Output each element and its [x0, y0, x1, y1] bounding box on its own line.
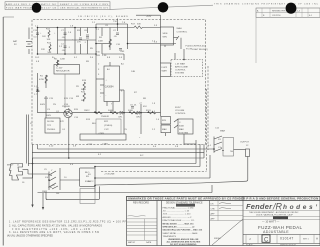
svg-text:SCALE —: SCALE — [246, 243, 255, 246]
svg-text:REV RECORD: REV RECORD [133, 202, 149, 205]
svg-text:DO NOT SCALE DRAWING: DO NOT SCALE DRAWING [170, 243, 197, 246]
svg-text:WAH: WAH [220, 130, 225, 133]
svg-text:CR2: CR2 [136, 117, 141, 119]
svg-text:2N REG: 2N REG [47, 129, 55, 131]
svg-text:FRACTIONAL ...................: FRACTIONAL ..................... ± 1/64 [163, 206, 195, 209]
svg-text:DIODE: DIODE [47, 121, 54, 123]
svg-text:OUTPUT: OUTPUT [240, 142, 250, 144]
svg-text:MAX: MAX [179, 128, 184, 131]
svg-text:.02R9: .02R9 [98, 133, 105, 135]
svg-text:300K: 300K [128, 110, 134, 112]
svg-text:CHK: CHK [211, 208, 216, 210]
svg-text:Fender: Fender [246, 202, 273, 211]
svg-text:.XX ..........................: .XX ................................ ± .… [163, 211, 190, 213]
svg-text:ALL DIMENSIONS ARE IN INCH: ALL DIMENSIONS ARE IN INCHES [167, 241, 201, 244]
svg-text:1. LAST REFERENCE DESIGNATOR: 1. LAST REFERENCE DESIGNATOR C15,CR2,S3,… [9, 221, 127, 224]
svg-text:470K: 470K [39, 79, 45, 81]
svg-text:CONTROL: CONTROL [175, 70, 186, 72]
svg-text:/R: /R [272, 202, 283, 212]
svg-text:LIGHT BULB(C): LIGHT BULB(C) [192, 49, 208, 51]
svg-text:SYSTEM: SYSTEM [175, 73, 184, 75]
svg-text:AIRVOLUME: AIRVOLUME [175, 66, 188, 69]
svg-text:A6C2: A6C2 [88, 180, 94, 183]
svg-text:VOLUME: VOLUME [175, 110, 185, 112]
svg-text:CONTROL(S): CONTROL(S) [191, 45, 205, 47]
svg-text:140K: 140K [98, 41, 104, 43]
svg-text:FUZZ: FUZZ [162, 67, 168, 69]
svg-text:SHEET METAL ................: SHEET METAL .......................... G… [163, 232, 199, 235]
svg-text:L.M. WAH: L.M. WAH [175, 63, 185, 66]
svg-text:MAX: MAX [162, 128, 167, 131]
svg-text:50K: 50K [137, 24, 141, 26]
svg-text:UNMARKED ANGLES WILL BE: UNMARKED ANGLES WILL BE [168, 238, 199, 241]
svg-text:FUZZ-WAH PEDAL: FUZZ-WAH PEDAL [258, 225, 302, 230]
svg-text:+VOLUME: +VOLUME [104, 174, 115, 176]
svg-text:WIN: WIN [163, 37, 168, 39]
svg-text:C/N 2250: C/N 2250 [272, 15, 281, 17]
svg-text:+10V: +10V [146, 16, 152, 18]
svg-text:FUZZ: FUZZ [175, 107, 181, 109]
svg-text:REGULATOR: REGULATOR [56, 70, 70, 73]
svg-text:1N4448: 1N4448 [101, 116, 109, 118]
svg-text:C5 .01: C5 .01 [130, 105, 137, 107]
svg-text:BLK: BLK [92, 123, 97, 125]
svg-text:WAH: WAH [177, 27, 182, 30]
svg-text:500K: 500K [179, 126, 185, 128]
svg-text:WAH: WAH [162, 70, 167, 73]
svg-text:BAT: BAT [13, 40, 18, 43]
svg-text:S1B: S1B [48, 187, 53, 189]
svg-text:FRACTIONAL EDGE .............: FRACTIONAL EDGE ............... 1 R. [163, 219, 195, 222]
svg-text:C2R9: C2R9 [102, 144, 108, 146]
svg-text:— 10 WATT —: — 10 WATT — [262, 220, 280, 224]
svg-text:DWG NO 010147: DWG NO 010147 [280, 244, 297, 246]
svg-text:16V: 16V [42, 36, 46, 38]
svg-text:600V: 600V [40, 104, 46, 106]
svg-text:(2 MEG): (2 MEG) [104, 125, 113, 127]
svg-text:ANGLES .......................: ANGLES .............................. ± … [163, 216, 193, 219]
svg-text:DATE: DATE [146, 241, 152, 244]
svg-text:SIDE: SIDE [163, 33, 169, 35]
svg-text:S1A: S1A [48, 174, 53, 177]
svg-text:DN: DN [56, 193, 60, 195]
svg-text:56K: 56K [48, 52, 52, 54]
svg-text:120K: 120K [60, 59, 66, 61]
svg-text:UNMARKED OR THOSE ANGLE PARTS: UNMARKED OR THOSE ANGLE PARTS MUST BE AP… [128, 197, 318, 201]
svg-text:L+10V: L+10V [56, 68, 63, 70]
svg-text:C2?9: C2?9 [87, 144, 93, 146]
svg-text:METAL EDGES ............ MAX: METAL EDGES ............ MAX .015 [163, 222, 195, 225]
svg-text:500K: 500K [108, 110, 114, 112]
svg-text:C: C [264, 238, 269, 244]
svg-text:CONTROL: CONTROL [175, 113, 186, 115]
svg-text:FINISH: FINISH [214, 238, 221, 240]
svg-text:47K: 47K [60, 121, 64, 123]
svg-text:CA3094: CA3094 [105, 86, 114, 89]
svg-text:APP: APP [211, 212, 216, 215]
svg-text:41K: 41K [143, 106, 147, 108]
svg-text:INPUT: INPUT [7, 165, 14, 167]
svg-text:1M: 1M [42, 191, 45, 193]
svg-text:P.O.M.: P.O.M. [186, 49, 193, 51]
svg-text:MAT BY: MAT BY [128, 241, 136, 244]
svg-text:14B: 14B [131, 71, 135, 73]
svg-text:FUZZ WAH PEDAL NO 010147 CB: FUZZ WAH PEDAL NO 010147 CB [6, 7, 57, 10]
svg-text:ADJUSTABLE: ADJUSTABLE [263, 230, 289, 234]
svg-text:CR1: CR1 [118, 117, 123, 119]
svg-text:SYSTEM: SYSTEM [179, 133, 188, 135]
svg-text:1M12: 1M12 [84, 110, 90, 112]
svg-text:TREATMENTS: TREATMENTS [163, 235, 177, 238]
svg-text:.XXX .........................: .XXX .............................. ± .0… [163, 214, 192, 216]
svg-text:THIS DRAWING CONTAINS PROPRIET: THIS DRAWING CONTAINS PROPRIETARY INFO O… [214, 3, 319, 6]
svg-text:S1/2: S1/2 [45, 177, 50, 179]
svg-text:A: A [316, 237, 318, 241]
svg-text:SHEET 1 OF 1 DWG SIZE C REV: SHEET 1 OF 1 DWG SIZE C REV [60, 4, 109, 6]
svg-text:2N: 2N [53, 104, 56, 106]
svg-text:600V: 600V [46, 115, 52, 117]
svg-text:GAUGE DRILL/JIG PUNCHES ...: GAUGE DRILL/JIG PUNCHES ... MAX .015 [163, 229, 203, 232]
svg-text:22K: 22K [41, 49, 45, 51]
svg-text:010147: 010147 [280, 237, 294, 241]
svg-text:R1@: R1@ [146, 110, 152, 112]
svg-text:27K: 27K [77, 42, 81, 44]
svg-text:CONTROL: CONTROL [177, 32, 188, 34]
svg-text:50K: 50K [81, 100, 85, 102]
svg-text:1B-2B/C13 (30 V), BOARD: 1B-2B/C13 (30 V), BOARD [78, 15, 128, 18]
svg-text:WIRE ANGLES .................: WIRE ANGLES .......................... ±… [163, 226, 196, 229]
svg-text:10K: 10K [47, 39, 51, 41]
svg-text:CBS MUSICAL INSTRUMENTS DIV: CBS MUSICAL INSTRUMENTS DIV [60, 7, 109, 10]
svg-text:C1/2: C1/2 [104, 129, 109, 131]
svg-text:(4) UNL UNLESS OTHERWISE SPECI: (4) UNL UNLESS OTHERWISE SPECIFIED [7, 234, 53, 237]
svg-text:AMR-014 REV C SCHEMATIC NO: AMR-014 REV C SCHEMATIC NO [6, 3, 56, 6]
svg-text:SHT 1: SHT 1 [303, 239, 310, 241]
svg-text:2N5088: 2N5088 [62, 106, 70, 108]
svg-text:APP: APP [211, 217, 216, 220]
